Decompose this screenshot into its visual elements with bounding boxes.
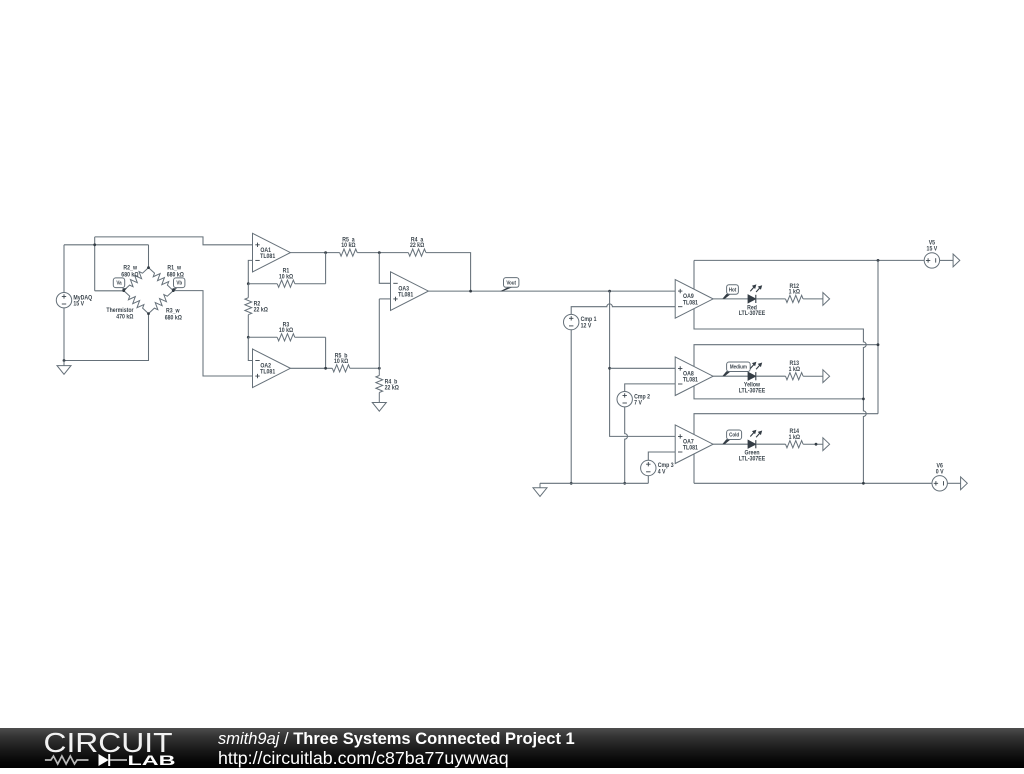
- wire OA2 - feedback: [248, 337, 252, 360]
- wire node Va: [95, 290, 124, 292]
- resistor R5_a: [340, 237, 380, 256]
- svg-text:R3_w: R3_w: [166, 308, 180, 314]
- wire OA8 V- pin + rail: [694, 386, 863, 399]
- voltage source V5 (V5): [924, 240, 939, 268]
- resistor R1: [248, 268, 325, 287]
- wire OA1 - feedback: [248, 260, 252, 283]
- op-amp OA9 (OA9): [675, 280, 713, 319]
- wire node A to OA3 -: [379, 253, 390, 284]
- op-amp OA3 (OA3): [391, 272, 429, 311]
- wire V6 rail: [694, 482, 932, 484]
- voltage source MyDAQ (MyDAQ): [56, 293, 92, 308]
- terminal flag (out R12): [823, 293, 830, 306]
- wire source bottom: [63, 308, 65, 361]
- svg-text:R1_w: R1_w: [167, 265, 181, 271]
- wire node Vb to OA2 +: [173, 291, 252, 376]
- junction OA8 V+ rail: [877, 343, 880, 346]
- svg-text:LTL-307EE: LTL-307EE: [739, 311, 766, 317]
- svg-text:TL081: TL081: [260, 254, 276, 260]
- wire junction vertical: [94, 237, 96, 291]
- svg-text:22 kΩ: 22 kΩ: [254, 307, 269, 313]
- svg-text:LTL-307EE: LTL-307EE: [739, 388, 766, 394]
- ground G1: [57, 361, 71, 375]
- svg-text:Vout: Vout: [506, 280, 516, 286]
- ground G2: [372, 403, 386, 412]
- resistor R14: [786, 429, 823, 448]
- ground G3: [533, 483, 547, 496]
- wire Vout: [428, 290, 675, 292]
- LED D OA7 (Green LTL-307EE): [739, 430, 766, 463]
- svg-text:7 V: 7 V: [634, 400, 642, 406]
- resistor R2_w (bridge top-left): [121, 265, 148, 290]
- wire Cmp3 to ground rail: [647, 476, 649, 484]
- junction: [93, 243, 96, 246]
- terminal flag (V6 flag): [961, 477, 968, 490]
- wire node B to OA3 +: [378, 299, 380, 368]
- wire OA7 output: [713, 443, 748, 445]
- svg-text:10 kΩ: 10 kΩ: [341, 243, 356, 249]
- wire OA2 output: [290, 367, 332, 369]
- voltage source Cmp 1 (Cmp1): [564, 314, 598, 329]
- svg-text:680 kΩ: 680 kΩ: [121, 272, 139, 278]
- voltage source Cmp 2 (Cmp2): [617, 392, 650, 407]
- thermistor (bridge bottom-left): [106, 291, 148, 321]
- wire source top: [63, 245, 65, 293]
- op-amp OA7 (OA7): [675, 425, 713, 464]
- resistor R13: [786, 361, 823, 380]
- svg-text:680 kΩ: 680 kΩ: [165, 315, 183, 321]
- wire Cmp2 to OA8 -: [625, 384, 676, 392]
- wire bottom rail: [64, 314, 149, 361]
- junction V- collector to V6 rail: [862, 482, 865, 485]
- wire OA9 V- pin + collector (hops over V+ rails): [694, 309, 866, 484]
- junction node A: [378, 251, 381, 254]
- resistor R1_w (bridge top-right): [149, 265, 185, 290]
- wire R3 to OA2 out: [325, 337, 327, 368]
- svg-text:TL081: TL081: [683, 300, 699, 306]
- svg-text:0 V: 0 V: [936, 469, 944, 475]
- junction OA3 feedback: [469, 290, 472, 293]
- voltage source V6 (V6): [932, 463, 947, 491]
- wire Cmp3 to OA7 -: [648, 452, 675, 460]
- node flag Vout (Vout): [500, 278, 519, 292]
- node flag Cold (Cold): [722, 430, 741, 444]
- wire Cmp2 to ground rail (hop over OA7 + wire): [625, 407, 628, 483]
- junction R1/R2: [247, 282, 250, 285]
- svg-text:TL081: TL081: [260, 369, 276, 375]
- svg-text:12 V: 12 V: [581, 323, 592, 329]
- svg-text:R2_w: R2_w: [123, 265, 137, 271]
- resistor R4_b: [376, 368, 399, 402]
- junction OA2 out: [324, 367, 327, 370]
- wire R4_a to OA3 out: [426, 253, 471, 292]
- node Vb (bridge right): [172, 289, 175, 292]
- wire to OA1 + input: [95, 237, 253, 245]
- svg-text:10 kΩ: 10 kΩ: [279, 328, 294, 334]
- svg-text:10 kΩ: 10 kΩ: [279, 274, 294, 280]
- voltage source Cmp 3 (Cmp3): [641, 460, 674, 475]
- wire OA8 output: [713, 375, 748, 377]
- svg-text:Medium: Medium: [730, 364, 748, 370]
- node Va (bridge left): [122, 289, 125, 292]
- wire OA1 output: [290, 252, 339, 254]
- op-amp OA2 (OA2): [253, 349, 291, 388]
- svg-text:Va: Va: [116, 280, 121, 286]
- resistor R4_a: [379, 237, 426, 256]
- op-amp OA8 (OA8): [675, 357, 713, 396]
- junction OA8 V- rail: [862, 398, 865, 401]
- svg-text:10 kΩ: 10 kΩ: [334, 359, 349, 365]
- junction Vout/main vertical: [608, 290, 611, 293]
- wire OA9 output: [713, 298, 748, 300]
- wire LED to R14: [756, 443, 786, 445]
- wire OA7 V+ pin + rail: [694, 414, 878, 435]
- svg-text:Thermistor: Thermistor: [106, 308, 134, 314]
- junction: [63, 359, 66, 362]
- node flag Medium (Medium): [722, 362, 750, 376]
- svg-text:Cold: Cold: [729, 432, 739, 438]
- resistor R3: [248, 322, 325, 341]
- resistor R5_b: [332, 353, 379, 372]
- node bridge top: [147, 266, 150, 269]
- resistor R2: [245, 284, 268, 338]
- svg-text:TL081: TL081: [683, 377, 699, 383]
- junction R2/R3: [247, 336, 250, 339]
- svg-text:TL081: TL081: [683, 445, 699, 451]
- LED D OA8 (Yellow LTL-307EE): [739, 362, 766, 395]
- wire to OA8 +: [610, 367, 676, 369]
- svg-text:TL081: TL081: [398, 292, 414, 298]
- wire V6 to flag: [947, 482, 960, 484]
- svg-text:470 kΩ: 470 kΩ: [116, 314, 134, 320]
- wire main vertical to OA7 +: [610, 291, 676, 436]
- svg-text:Hot: Hot: [729, 287, 737, 293]
- wire LED to R12: [756, 298, 786, 300]
- svg-text:LTL-307EE: LTL-307EE: [739, 456, 766, 462]
- wire OA3 + stub: [379, 298, 390, 300]
- wire V5 to flag: [940, 259, 954, 261]
- svg-text:1 kΩ: 1 kΩ: [789, 289, 801, 295]
- wire OA7 V- pin: [693, 454, 695, 484]
- wire bridge top: [148, 245, 150, 268]
- node bridge bottom: [147, 312, 150, 315]
- svg-text:1 kΩ: 1 kΩ: [789, 367, 801, 373]
- wire R1 to OA1 out: [325, 253, 327, 284]
- terminal flag (out R14): [823, 438, 830, 451]
- wire ground rail: [540, 482, 648, 484]
- svg-text:4 V: 4 V: [658, 469, 666, 475]
- junction OA8 +: [608, 367, 611, 370]
- svg-text:LAB: LAB: [128, 752, 176, 768]
- svg-text:Vb: Vb: [176, 280, 182, 286]
- node flag Hot (Hot): [722, 285, 738, 299]
- op-amp OA1 (OA1): [253, 233, 291, 272]
- wire Cmp1 to OA9 - (hop over main vertical): [571, 304, 675, 314]
- wire V+ rail to V5: [694, 259, 924, 261]
- wire V+ collector vertical: [877, 260, 879, 413]
- junction gnd Cmp2: [623, 482, 626, 485]
- terminal flag (out R13): [823, 370, 830, 383]
- wire top rail to bridge: [64, 244, 149, 246]
- svg-text:15 V: 15 V: [73, 301, 84, 307]
- resistor R12: [786, 284, 823, 303]
- LED D OA9 (Red LTL-307EE): [739, 284, 766, 317]
- junction R14 wire: [815, 443, 818, 446]
- junction OA1 out: [324, 251, 327, 254]
- wire OA9 V+ pin: [693, 260, 695, 289]
- node flag Vb (Vb): [172, 278, 185, 291]
- svg-text:1 kΩ: 1 kΩ: [789, 435, 801, 441]
- junction gnd Cmp1: [570, 482, 573, 485]
- junction node B: [378, 367, 381, 370]
- wire OA8 V+ pin + rail: [694, 345, 878, 367]
- node flag Va (Va): [113, 278, 127, 291]
- svg-text:15 V: 15 V: [927, 246, 938, 252]
- wire LED to R13: [756, 375, 786, 377]
- svg-text:22 kΩ: 22 kΩ: [385, 385, 400, 391]
- junction V5 vertical: [877, 259, 880, 262]
- CircuitLab logo: [44, 727, 176, 768]
- svg-text:22 kΩ: 22 kΩ: [410, 243, 425, 249]
- wire Cmp1 to ground rail: [570, 330, 572, 484]
- resistor R3_w (bridge bottom-right): [149, 291, 183, 322]
- terminal flag (V5 flag): [953, 254, 960, 267]
